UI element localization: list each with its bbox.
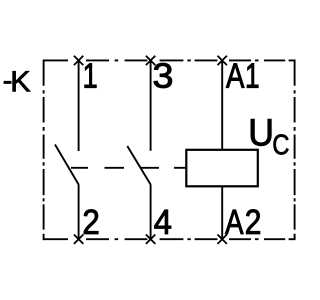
contact blade pole 1-2 [55,145,79,185]
wire pole 1 bottom stub [78,184,80,239]
wire coil A1 stub [221,60,223,149]
terminal label 3 [154,63,172,88]
terminal label 1 [85,64,97,88]
contact blade pole 3-4 [127,146,150,185]
terminal marker x at 4 [146,235,155,244]
terminal label A2 - A [225,210,243,234]
coil K1 rectangle [186,150,257,187]
wire pole 3 bottom stub [150,184,152,239]
terminal marker x at 2 [74,235,83,244]
boundary frame top edge (dash-dot) [44,59,295,61]
device label -K letter K [13,71,31,91]
mechanical linkage dashed line [71,167,186,169]
coil voltage label U [251,119,271,146]
terminal label A2 - 2 [246,209,260,233]
terminal label 4 [154,210,171,234]
device label -K hyphen [4,81,11,83]
wire pole 1 top stub [78,60,80,151]
boundary frame left edge (dash-dot) [43,59,45,240]
boundary frame right edge (dash-dot) [294,59,296,240]
wire pole 3 top stub [150,60,152,150]
terminal label A1 - 1 [247,64,258,88]
terminal marker x at A1 [218,56,227,65]
coil voltage subscript C [274,134,289,154]
wire coil A2 stub [221,186,223,239]
terminal marker x at A2 [218,235,227,244]
terminal label 2 [84,209,98,233]
terminal label A1 - A [226,64,244,88]
boundary frame bottom edge (dash-dot) [44,238,295,240]
terminal marker x at 1 [74,56,83,65]
terminal marker x at 3 [146,56,155,65]
